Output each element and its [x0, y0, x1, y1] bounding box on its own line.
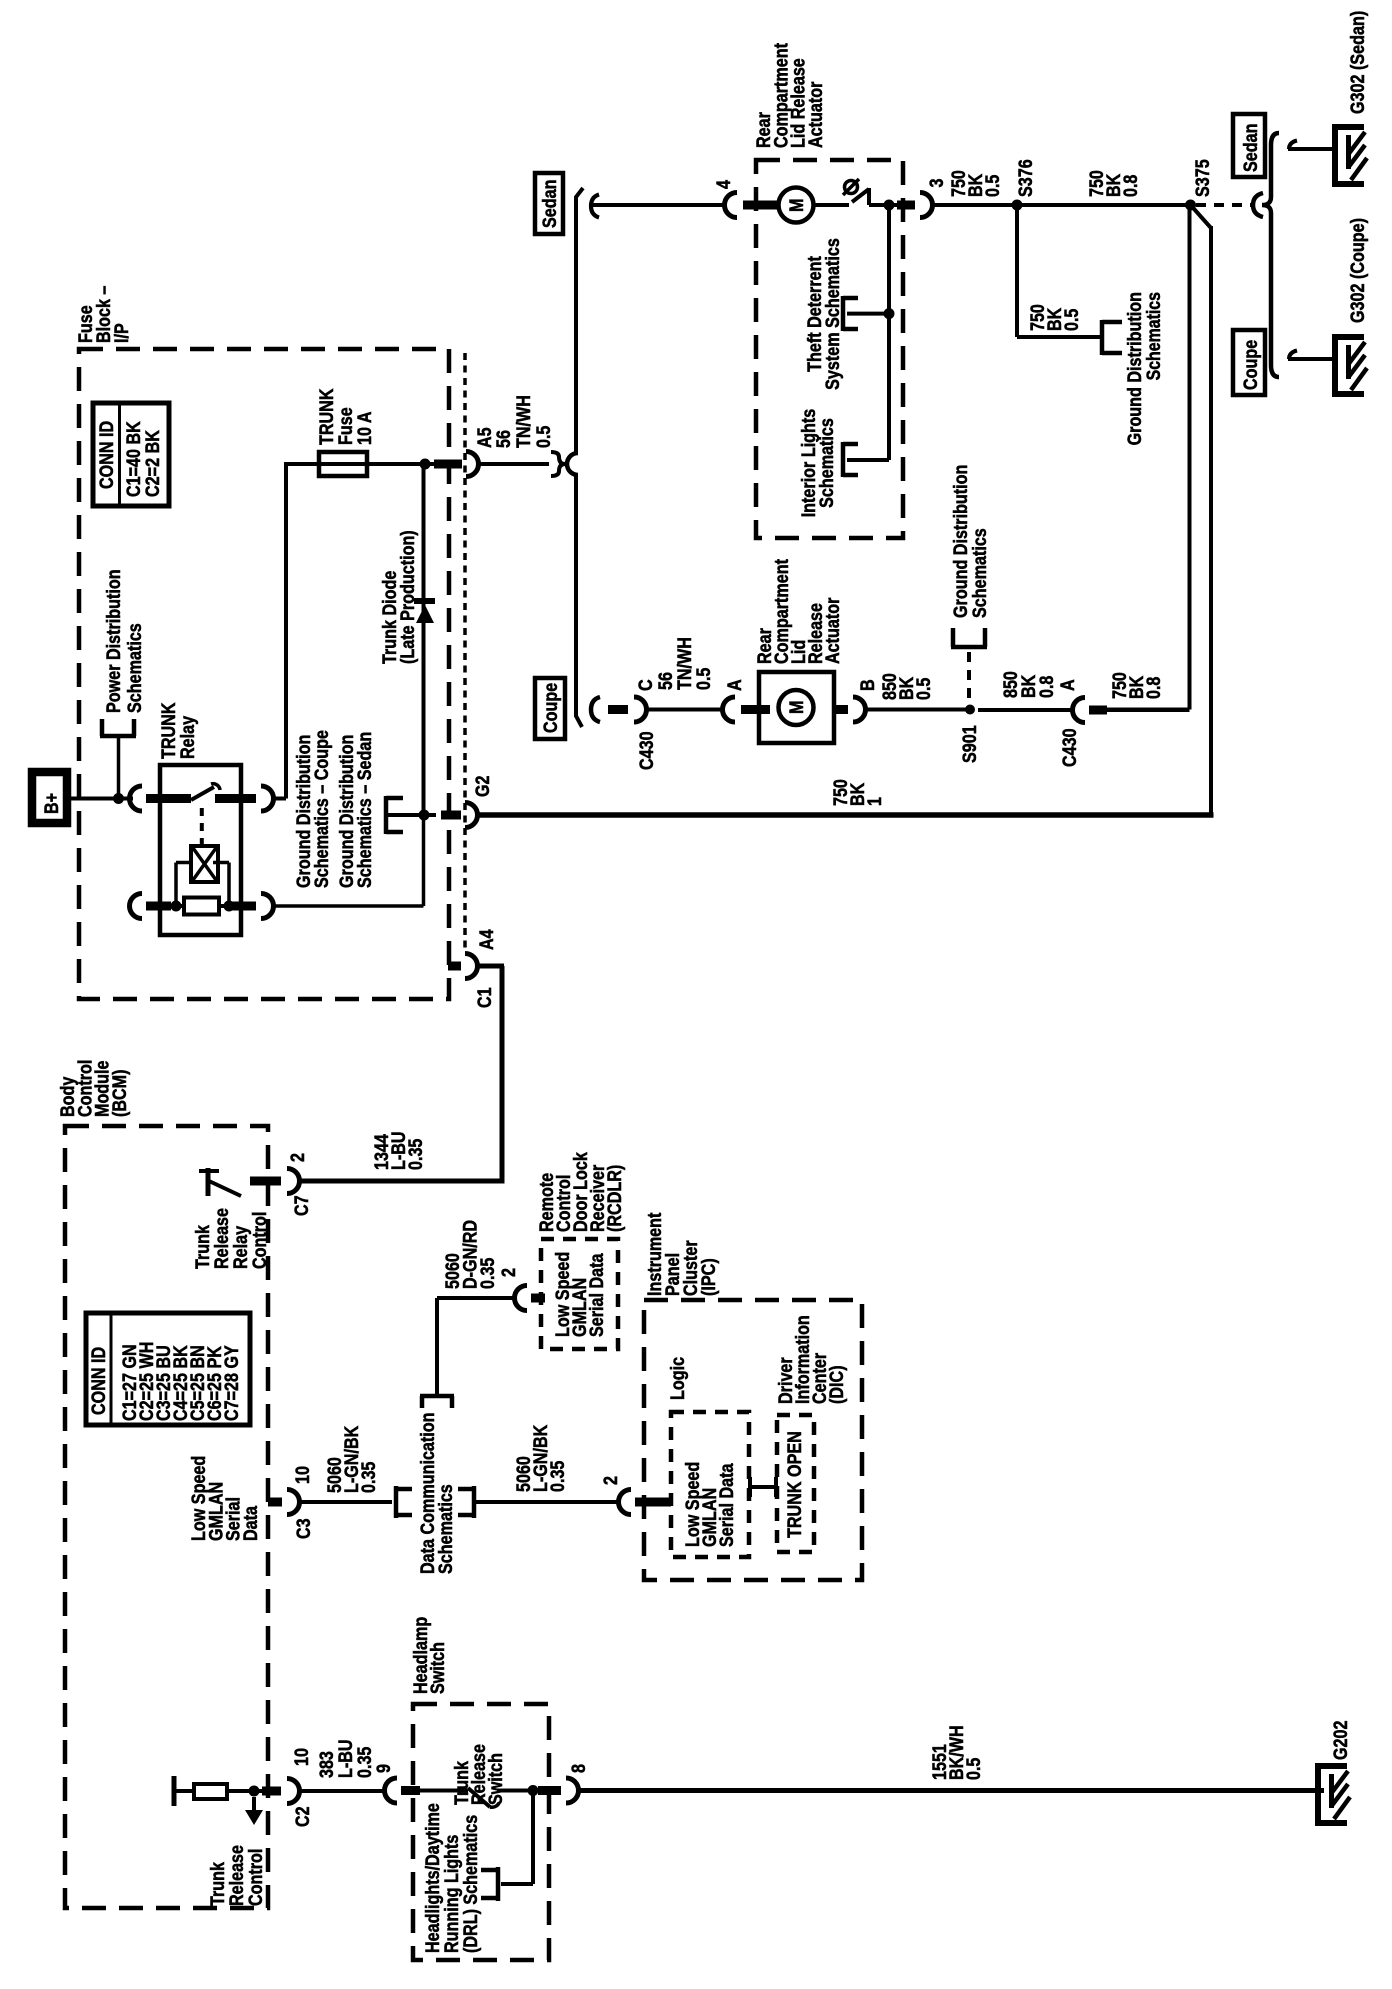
Coupe text [1241, 340, 1262, 390]
wire relay 86 to diode branch [274, 904, 424, 908]
fat stub 9 [401, 1786, 420, 1795]
CONN ID table (BCM) [86, 1313, 250, 1425]
headlamp switch dashed box [413, 1704, 549, 1960]
wire label 850 BK 0.5 [880, 673, 935, 700]
sedan actuator motor [779, 188, 814, 223]
svg-text:C1=27 GNC2=25 WHC3=25 BUC4=25: C1=27 GNC2=25 WHC3=25 BUC4=25 BKC5=25 BN… [120, 1342, 243, 1421]
pin label A (C430) [1058, 679, 1079, 691]
connector label C430 [637, 731, 658, 770]
wire label 850 BK 0.8 [1001, 671, 1058, 698]
sedan/coupe branch wire upper [576, 188, 583, 452]
wire label 1551 BK/WH 0.5 [930, 1725, 985, 1780]
wire diode branch to resistor row [422, 815, 426, 906]
dashed wire S375 to split [1196, 203, 1251, 207]
sedan actuator dashed box [756, 160, 903, 538]
label Ground Distribution Schematics (S901) [951, 465, 991, 618]
split cup on branch [567, 453, 578, 475]
IPC dashed box [644, 1300, 862, 1580]
svg-text:S376: S376 [1016, 159, 1037, 197]
dot resistor right [224, 901, 235, 912]
fat stub RCDLR [531, 1294, 545, 1303]
svg-text:B: B [858, 679, 879, 691]
svg-text:S375: S375 [1193, 159, 1214, 197]
ground symbol G202 [1315, 1763, 1321, 1826]
label G302 (Coupe) [1348, 218, 1369, 323]
M text sedan [787, 199, 808, 213]
svg-text:C430: C430 [1060, 728, 1081, 767]
B+ battery feed symbol [32, 772, 67, 823]
svg-text:8: 8 [569, 1764, 590, 1773]
text TRUNK OPEN [785, 1431, 806, 1538]
pin label 8 [569, 1764, 590, 1773]
connector cup C7 [287, 1169, 300, 1194]
svg-text:2: 2 [601, 1476, 622, 1485]
wire relay out [274, 797, 287, 801]
wire down to BCM C7 [500, 966, 505, 1181]
stub to power distribution ref [117, 737, 121, 799]
label S375 [1193, 159, 1214, 197]
connector cup 4 [725, 193, 738, 218]
junction dot theft [884, 308, 895, 319]
ground distribution ref symbol G2 [384, 796, 389, 834]
junction dot arrow [249, 1786, 260, 1797]
svg-text:M: M [787, 701, 808, 715]
theft deterrent ref symbol [841, 296, 846, 331]
relay switch fixed lead [146, 794, 191, 803]
pin label 2 IPC [601, 1476, 622, 1485]
relay pin 86 cup [261, 894, 274, 919]
hook at ground split [1253, 193, 1263, 217]
pin label 9 [374, 1764, 395, 1773]
svg-text:A: A [725, 679, 746, 691]
svg-text:C1: C1 [475, 987, 496, 1008]
dot resistor left [171, 901, 182, 912]
label RCDLR [537, 1152, 626, 1232]
svg-text:G302 (Sedan): G302 (Sedan) [1348, 11, 1369, 114]
connector label C1 [475, 987, 496, 1008]
fat stub C430 A [1089, 706, 1107, 715]
Sedan branch label box [535, 173, 563, 234]
dashed stub S901 to ground ref [967, 652, 971, 702]
svg-text:G2: G2 [473, 776, 494, 798]
wire S375 diagonal [1191, 205, 1212, 228]
wire D-GN/RD vertical [435, 1298, 439, 1396]
wire B to S901 [865, 708, 966, 712]
connector cup RCDLR 2 [515, 1286, 528, 1311]
M text coupe [787, 701, 808, 715]
svg-text:3: 3 [927, 179, 948, 188]
label Logic [668, 1357, 689, 1400]
connector cup C3 [287, 1490, 300, 1515]
svg-text:CONN ID: CONN ID [89, 1347, 110, 1415]
label Fuse Block - I/P [76, 286, 133, 343]
svg-text:C430: C430 [637, 731, 658, 770]
wire label 5060 L-GN/BK 0.35 [325, 1425, 380, 1493]
connector cup G2 [465, 803, 478, 828]
sedan inner branch wire [887, 205, 891, 460]
fat stub IPC 2 [635, 1498, 671, 1507]
pin label C [636, 679, 657, 691]
TRUNK OPEN dashed box [777, 1415, 814, 1552]
connector label C2 [293, 1806, 314, 1827]
pin label A [725, 679, 746, 691]
variant split brace (grounds) [1262, 133, 1279, 377]
svg-text:Theft DeterrentSystem Schemati: Theft DeterrentSystem Schematics [805, 238, 844, 390]
logic to DIC link [750, 1485, 776, 1489]
fat stub C430 C [608, 705, 628, 714]
wire A4 out [477, 964, 504, 969]
pin label B [858, 679, 879, 691]
ground distribution ref symbol (S901) [951, 645, 987, 650]
data comm ref left [394, 1486, 399, 1518]
label G302 (Sedan) [1348, 11, 1369, 114]
wire label 383 L-BU 0.35 [317, 1739, 376, 1778]
male hook C430 C [591, 697, 600, 722]
wire S901 to C430 A [978, 708, 1073, 712]
wire label 5060 L-GN/BK 0.35 right [514, 1424, 569, 1492]
branch end flick (coupe option) [576, 695, 582, 727]
connector cup B [853, 697, 866, 722]
fat stub C3 [268, 1498, 282, 1507]
wire label 750 BK 0.8 right [1110, 672, 1165, 699]
svg-text:A4: A4 [477, 929, 498, 950]
relay pin 30 cup [130, 786, 143, 811]
BCM conn id values [120, 1342, 243, 1421]
fat stub A [741, 705, 770, 714]
label Data Communication Schematics [418, 1413, 457, 1575]
fat stub pin 4 [743, 201, 778, 210]
svg-text:9: 9 [374, 1764, 395, 1773]
Sedan text [1241, 124, 1262, 173]
svg-text:Interior LightsSchematics: Interior LightsSchematics [799, 409, 838, 518]
wire to S376/S375 [932, 203, 1186, 207]
trunk release switch blade [468, 1788, 490, 1807]
sedan ground branch [1289, 141, 1297, 150]
fat stub 8 [538, 1786, 561, 1795]
coupe ground branch [1289, 351, 1297, 360]
pin label A4 [477, 929, 498, 950]
trunk diode symbol [416, 605, 434, 623]
CONN ID header BCM [89, 1347, 110, 1415]
fat stub C2 [262, 1787, 281, 1796]
relay pin 85 cup [130, 894, 143, 919]
Coupe branch label box [535, 678, 565, 739]
svg-text:A5: A5 [475, 427, 496, 448]
relay switch output lead [215, 794, 256, 803]
svg-text:10: 10 [293, 1466, 314, 1484]
wire to RCDLR [437, 1296, 515, 1300]
pin label 10 [293, 1466, 314, 1484]
wire S375 to coupe row [1188, 205, 1192, 710]
label Rear Compartment Lid Release Actuator (sedan) [754, 42, 827, 148]
label Instrument Panel Cluster (IPC) [645, 1212, 720, 1296]
wire label 1344 L-BU 0.35 [372, 1131, 427, 1170]
data comm ref right [472, 1486, 477, 1518]
svg-text:Logic: Logic [668, 1357, 689, 1400]
ground distribution ref (S376) [1100, 320, 1105, 355]
wire C430 A to corner [1107, 708, 1190, 712]
svg-text:G302 (Coupe): G302 (Coupe) [1348, 218, 1369, 323]
male pin start [172, 1776, 177, 1806]
label Interior Lights Schematics [799, 409, 838, 518]
svg-text:2: 2 [288, 1153, 309, 1162]
data comm ref top (D-GN/RD) [420, 1394, 454, 1399]
wire S376 to ground ref [1015, 205, 1019, 337]
svg-text:C2: C2 [293, 1806, 314, 1827]
interior lights ref symbol [841, 442, 846, 477]
wire label 750 BK 1 [831, 779, 886, 806]
connector cup 9 [385, 1778, 398, 1803]
wire label 750 BK 0.5 [949, 170, 1004, 197]
label Trunk Release Relay Control [193, 1208, 271, 1269]
power distribution ref symbol [100, 734, 136, 739]
B+ text [42, 793, 63, 814]
label Trunk Diode (Late Production) [380, 530, 419, 664]
svg-text:Coupe: Coupe [541, 683, 562, 733]
wire to trunk release switch [420, 1789, 468, 1793]
G2 fat stub [441, 811, 461, 820]
arrow (trunk release control) [252, 1797, 256, 1812]
relay coil (X-box) [191, 846, 218, 882]
label S376 [1016, 159, 1037, 197]
svg-text:G202: G202 [1331, 1721, 1352, 1761]
svg-text:M: M [787, 199, 808, 213]
label Body Control Module (BCM) [58, 1060, 131, 1117]
connector label C7 [292, 1195, 313, 1216]
pin label A5 [475, 427, 496, 448]
wire label 56 TN/WH 0.5 [494, 395, 555, 448]
svg-text:4: 4 [714, 180, 735, 189]
svg-text:Ground DistributionSchematics: Ground DistributionSchematics – Sedan [337, 732, 376, 888]
label Trunk Release Control [208, 1845, 267, 1906]
relay switch blade [191, 787, 214, 800]
label S901 [960, 725, 981, 763]
label G202 [1331, 1721, 1352, 1761]
wire up to fuse row [284, 462, 288, 799]
coupe actuator box [759, 672, 834, 743]
svg-text:S901: S901 [960, 725, 981, 763]
wire 383 L-BU [299, 1789, 385, 1793]
sedan actuator switch [845, 181, 858, 194]
DRL ref symbol [496, 1867, 501, 1901]
pin label 4 [714, 180, 735, 189]
fat stub pin 3 [897, 201, 915, 210]
connector cup 8 [566, 1778, 579, 1803]
wire C3 to data comm ref [299, 1500, 392, 1504]
label Rear Compartment Lid Release Actuator (coupe) [755, 558, 844, 664]
label Theft Deterrent System Schematics [805, 238, 844, 390]
Sedan label box [1233, 114, 1265, 177]
wire label 56 TN/WH 0.5 coupe [656, 637, 715, 690]
CONN ID table (fuse block) [93, 403, 169, 506]
CONN ID header [97, 421, 118, 489]
connector cup A [723, 697, 736, 722]
relay U-box [160, 765, 241, 935]
wire ref to G2 [388, 813, 436, 817]
svg-text:C1=40 BKC2=2 BK: C1=40 BKC2=2 BK [124, 421, 164, 497]
connector cup A5 [466, 452, 479, 477]
label Ground Distribution Schematics - Sedan [337, 732, 376, 888]
label Headlights/Daytime Running Lights (DRL) Schematics [423, 1803, 482, 1953]
wire label 750 BK 0.5 branch [1028, 304, 1083, 331]
wire label 5060 D-GN/RD 0.35 [443, 1220, 499, 1289]
wire 1551 BK/WH to G202 [578, 1788, 1324, 1793]
junction dot power dist [113, 793, 124, 804]
label Ground Distribution Schematics (S376) [1125, 292, 1165, 445]
svg-text:B+: B+ [42, 793, 63, 814]
connector cup C430 C [634, 697, 646, 722]
wire C430 to actuator A [646, 708, 723, 712]
connector label C3 [294, 1518, 315, 1539]
label Ground Distribution Schematics - Coupe [294, 730, 333, 888]
Sedan branch text [540, 180, 561, 229]
hook at sedan row start [591, 195, 599, 218]
resistor (BCM) [194, 1784, 227, 1799]
wire data comm to IPC 2 [474, 1500, 618, 1504]
Fuse Block - I/P dashed box [79, 349, 449, 999]
connector cup A4 [465, 954, 478, 979]
pin label 2 RCDLR [499, 1268, 520, 1277]
svg-text:2: 2 [499, 1268, 520, 1277]
connector label C430 right [1060, 728, 1081, 767]
svg-text:10: 10 [292, 1748, 313, 1766]
svg-text:A: A [1058, 679, 1079, 691]
relay dashed actuation link [200, 808, 204, 846]
svg-text:CONN ID: CONN ID [97, 421, 118, 489]
ground symbol G302 coupe [1332, 334, 1338, 397]
fuse row wire [284, 462, 440, 466]
svg-text:Ground DistributionSchematics: Ground DistributionSchematics – Coupe [294, 730, 333, 888]
pin label 10 C2 [292, 1748, 313, 1766]
pin label 2 [288, 1153, 309, 1162]
junction dot DRL [528, 1785, 539, 1796]
DRL branch [531, 1791, 535, 1885]
RCDLR dashed box [541, 1239, 618, 1349]
A5 fat stub [434, 460, 462, 469]
junction dot switch out [884, 200, 895, 211]
fat stub C7 [250, 1177, 281, 1186]
connector cup C430 A [1073, 698, 1086, 723]
connector cup 3 [920, 193, 933, 218]
text in RCDLR [553, 1252, 608, 1337]
wire S375 to G2 row [1209, 226, 1213, 815]
fat stub B [834, 705, 848, 714]
interior lights ref stub [847, 458, 889, 462]
pin label G2 [473, 776, 494, 798]
splice S375 [1185, 200, 1196, 211]
svg-text:Coupe: Coupe [1241, 340, 1262, 390]
splice S376 [1012, 200, 1023, 211]
Coupe branch text [541, 683, 562, 733]
wire B+ to relay [71, 797, 133, 801]
label Low Speed GMLAN Serial Data (BCM) [189, 1456, 262, 1541]
svg-text:Sedan: Sedan [1241, 124, 1262, 173]
svg-text:C7: C7 [292, 1195, 313, 1216]
relay coil taps [176, 861, 192, 865]
splice S901 [965, 705, 975, 715]
theft deterrent ref stub [847, 312, 889, 316]
svg-text:Sedan: Sedan [540, 180, 561, 229]
label TRUNK Fuse 10A [317, 388, 376, 445]
svg-text:C: C [636, 679, 657, 691]
wire G2 750 BK 1 [477, 812, 1214, 818]
trunk release relay control switch [206, 1168, 211, 1196]
relay pin 87 cup [261, 786, 274, 811]
wire motor to switch [813, 203, 849, 207]
Logic dashed box [671, 1412, 749, 1557]
text Low Speed GMLAN Serial Data IPC [683, 1462, 738, 1547]
svg-text:C3: C3 [294, 1518, 315, 1539]
label Driver Information Center (DIC) [776, 1315, 848, 1404]
junction dot G2 row [419, 810, 430, 821]
label TRUNK Relay [159, 702, 199, 759]
connector cup C2 [287, 1779, 300, 1804]
wire A5 to split [478, 462, 549, 466]
label Trunk Release Switch [452, 1744, 507, 1805]
label Power Distribution Schematics [104, 569, 146, 713]
connector cup IPC 2 [619, 1490, 632, 1515]
A4 fat stub [448, 962, 461, 971]
junction dot diode/A5 [420, 459, 431, 470]
wire C7 row [299, 1179, 505, 1184]
sedan row wire [592, 203, 725, 207]
label Headlamp Switch [411, 1617, 449, 1694]
fuse block connector dashed line C1/C2 [463, 353, 467, 950]
Coupe label box [1233, 330, 1265, 395]
pin label 3 [927, 179, 948, 188]
sedan/coupe branch wire lower [574, 474, 578, 697]
fuse symbol [319, 452, 367, 476]
svg-text:TRUNK OPEN: TRUNK OPEN [785, 1431, 806, 1538]
ground symbol G302 sedan [1332, 124, 1338, 187]
BCM dashed box [65, 1126, 268, 1908]
diode branch wire [422, 464, 426, 815]
conn id values [124, 421, 164, 497]
wire label 750 BK 0.8 [1087, 170, 1142, 197]
